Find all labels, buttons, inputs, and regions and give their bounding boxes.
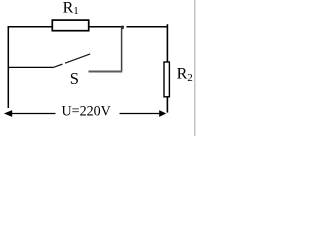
svg-text:S: S [70, 69, 79, 88]
svg-text:U=220V: U=220V [62, 104, 111, 120]
